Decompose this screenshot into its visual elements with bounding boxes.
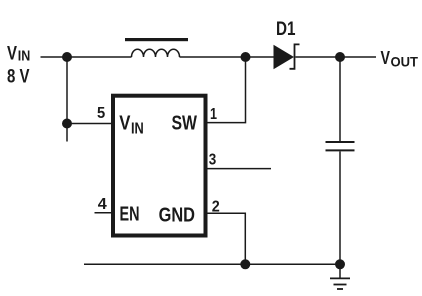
pin number 3 xyxy=(209,152,217,169)
svg-text:4: 4 xyxy=(98,196,107,213)
svg-text:V: V xyxy=(119,111,130,134)
svg-text:8 V: 8 V xyxy=(7,66,30,87)
node VIN label xyxy=(7,44,30,88)
wire capacitor to ground rail xyxy=(339,152,341,265)
IC U1 pin label EN xyxy=(120,202,140,225)
svg-text:D1: D1 xyxy=(276,19,296,40)
wire input branch vertical stub xyxy=(66,57,68,142)
ground rail wire xyxy=(84,263,340,265)
wire diode to VOUT xyxy=(296,56,377,58)
IC U1 pin label VIN xyxy=(119,111,144,137)
svg-text:GND: GND xyxy=(159,204,195,227)
junction pin2 ground xyxy=(240,259,250,269)
IC U1 pin label GND xyxy=(159,204,195,227)
svg-text:SW: SW xyxy=(172,112,198,135)
wire pin 3 xyxy=(207,168,271,170)
svg-text:V: V xyxy=(381,47,391,68)
wire pin 4 EN xyxy=(95,212,113,214)
node VOUT label xyxy=(381,47,419,69)
inductor L1 core bar xyxy=(125,38,188,41)
IC U1 pin label SW xyxy=(172,112,198,135)
capacitor C1 xyxy=(326,142,355,150)
junction input node xyxy=(62,52,72,62)
pin number 2 xyxy=(212,198,220,215)
ground symbol xyxy=(330,264,350,289)
junction SW node xyxy=(241,52,251,62)
svg-text:EN: EN xyxy=(120,202,140,225)
wire output to capacitor xyxy=(339,57,341,141)
wire pin 2 to ground rail xyxy=(207,213,245,264)
svg-text:5: 5 xyxy=(97,105,105,122)
IC U1 body xyxy=(113,96,206,236)
diode D1 label xyxy=(276,19,296,40)
junction pin5 branch xyxy=(62,119,72,129)
junction output node xyxy=(335,52,345,62)
pin number 1 xyxy=(210,106,217,123)
wire pin 1 to SW node xyxy=(207,61,246,123)
svg-text:IN: IN xyxy=(18,49,31,65)
svg-text:1: 1 xyxy=(210,106,217,123)
svg-text:3: 3 xyxy=(209,152,217,169)
inductor L1 winding xyxy=(132,49,180,57)
wire to pin 5 xyxy=(67,123,112,125)
wire VIN to inductor xyxy=(41,56,132,58)
wire inductor to diode xyxy=(180,56,274,58)
svg-text:OUT: OUT xyxy=(391,54,419,69)
svg-text:V: V xyxy=(7,44,17,65)
pin number 5 xyxy=(97,105,105,122)
svg-text:IN: IN xyxy=(131,120,144,137)
junction capacitor ground xyxy=(335,259,345,269)
diode D1 xyxy=(274,44,300,69)
pin number 4 xyxy=(98,196,107,213)
